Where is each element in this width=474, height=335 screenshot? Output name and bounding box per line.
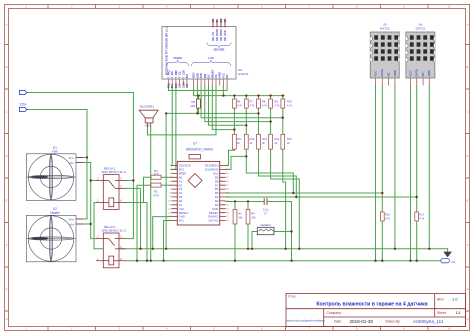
svg-text:R3: R3 — [238, 212, 242, 216]
svg-text:ILI9341: ILI9341 — [238, 72, 249, 76]
svg-text:SD_MISO: SD_MISO — [219, 29, 223, 41]
node DHT2 data to arduino — [416, 196, 418, 198]
wire divider column 4 — [271, 96, 300, 249]
svg-text:SDI: SDI — [203, 74, 207, 79]
node col2 branch — [245, 155, 247, 157]
svg-text:ARDUINO_NANO: ARDUINO_NANO — [186, 147, 214, 151]
wire node A down to gnd rail — [165, 113, 167, 248]
wire divider column 3 — [259, 96, 297, 197]
svg-text:A: A — [6, 23, 8, 27]
svg-text:Vin+: Vin+ — [69, 156, 75, 160]
svg-text:SDCARD: SDCARD — [214, 49, 225, 52]
svg-text:G: G — [5, 287, 7, 291]
label R17 4.7k — [419, 213, 425, 221]
wire display RESET to divider1 — [212, 86, 234, 130]
svg-text:VCC: VCC — [221, 73, 225, 79]
wire arduino left GND to gnd rail — [153, 217, 172, 249]
node 5v rail x147 — [146, 260, 148, 262]
node gnd rail DHT2 — [428, 248, 430, 250]
resistor R14 — [269, 134, 273, 149]
wire DHT1 DATA down — [381, 86, 383, 261]
R3 R4 top stubs — [235, 202, 248, 210]
resistor R12 — [244, 134, 248, 149]
wire divider column 5 — [283, 96, 286, 249]
label RELAY2 — [102, 225, 128, 233]
svg-text:B: B — [467, 65, 469, 69]
svg-text:4.7k: 4.7k — [250, 104, 256, 108]
wire divider column 2 — [246, 96, 293, 193]
DHT U5 pin names — [373, 69, 396, 76]
svg-text:4.7k: 4.7k — [419, 217, 425, 221]
svg-text:NC: NC — [386, 72, 390, 76]
op-amp U7 arduino nano body — [177, 161, 219, 225]
svg-text:RESET: RESET — [210, 69, 214, 78]
svg-text:T_CS: T_CS — [178, 71, 182, 78]
svg-text:4.7k: 4.7k — [287, 104, 293, 108]
arduino usb connector — [189, 154, 200, 159]
node 5v rail gndpin — [162, 260, 164, 262]
wire DHT1 VCC down — [375, 86, 377, 261]
svg-text:R8: R8 — [262, 100, 266, 104]
svg-text:R10: R10 — [287, 100, 292, 104]
wire relay1 coil left to gnd rail — [94, 203, 96, 249]
wire display node line y113.4 to divider3 — [166, 112, 258, 114]
node gnd rail x152 — [152, 248, 154, 250]
DHT sensor U5 body — [370, 32, 399, 78]
heater X2 — [26, 215, 76, 261]
wire arduino left VIN down — [164, 221, 172, 261]
node col3 on data rail — [292, 192, 294, 194]
svg-text:NC: NC — [421, 72, 425, 76]
DHT U5 pins — [376, 78, 395, 86]
resistor R16 pull-up DHT1 — [380, 212, 384, 221]
display touch net labels below — [167, 82, 190, 88]
node 5v rail R3 — [234, 260, 236, 262]
svg-text:CK: CK — [223, 18, 227, 22]
svg-text:E: E — [6, 199, 8, 203]
svg-text:U7: U7 — [193, 142, 197, 146]
svg-text:220v: 220v — [20, 102, 27, 106]
svg-text:VCC: VCC — [373, 71, 377, 77]
display lcd pin names inside — [192, 69, 230, 78]
svg-text:DHT22: DHT22 — [380, 26, 390, 30]
wire buzzer pin1 to display pin — [148, 86, 217, 135]
node 5v rail cap line — [290, 260, 292, 262]
svg-text:R14: R14 — [275, 137, 280, 141]
svg-text:TOUCH: TOUCH — [173, 57, 182, 60]
svg-text:C: C — [467, 110, 469, 114]
label R13 2k — [262, 137, 267, 145]
wire fan E1 Vin+ stub — [83, 157, 87, 159]
display sdcard brace — [207, 43, 231, 48]
svg-text:E: E — [467, 199, 469, 203]
svg-text:4.7k: 4.7k — [275, 104, 281, 108]
svg-text:SRD-05VDC-SL-C: SRD-05VDC-SL-C — [102, 170, 128, 174]
wire relay1 pin3 branch — [126, 180, 134, 182]
label R15 2k — [287, 137, 292, 145]
svg-text:INT: INT — [185, 83, 189, 88]
svg-text:HY28A 2.8 RGB TFT 240X320 SPI: HY28A 2.8 RGB TFT 240X320 SPI v1.1 — [165, 26, 169, 75]
node col4 on data rail — [295, 196, 297, 198]
node divider2 mid — [245, 124, 247, 126]
svg-text:R4: R4 — [251, 212, 255, 216]
node divider4 mid — [269, 120, 271, 122]
display touch pins — [169, 79, 188, 86]
svg-text:AnDrEyKa_111: AnDrEyKa_111 — [413, 319, 444, 324]
arduino pin stubs right — [220, 166, 226, 221]
wire display SCK to divider5 — [201, 86, 283, 118]
svg-text:1.0: 1.0 — [452, 297, 458, 302]
label R7 4.7k — [250, 100, 256, 108]
resistor R15 — [281, 134, 285, 149]
node divider5 top — [282, 94, 284, 96]
svg-text:T_DO: T_DO — [170, 71, 174, 78]
node gnd rail DHT1 — [394, 248, 396, 250]
wire fan Vin- down to relay2 pin2 — [83, 163, 96, 239]
svg-text:H: H — [6, 317, 8, 321]
photoresistor FR1 — [257, 227, 274, 234]
wire R5 top to +5v top rail — [198, 96, 200, 99]
svg-text:Company:: Company: — [327, 311, 342, 315]
svg-text:LED: LED — [195, 73, 199, 78]
wire R4 bottom to gnd rail — [247, 224, 249, 249]
connector P2 220v neutral — [20, 107, 27, 111]
wire DHT2 DATA down — [416, 86, 418, 261]
node gnd rail nodeA — [165, 248, 167, 250]
display sdcard net labels above — [211, 18, 227, 23]
svg-text:+5V: +5V — [145, 123, 150, 127]
label R2 470 — [153, 190, 158, 198]
svg-text:Vin-: Vin- — [69, 222, 74, 226]
label U7 ARDUINO_NANO — [186, 142, 214, 152]
label E1 Fan — [52, 146, 58, 154]
wire gnd symbol stub — [447, 249, 449, 252]
node divider1 top — [233, 94, 235, 96]
resistor R8 — [257, 99, 261, 108]
wire display DC to divider2 — [209, 86, 247, 126]
svg-text:R17: R17 — [419, 213, 424, 217]
svg-text:A: A — [467, 23, 469, 27]
pin Vin+ of E1 — [76, 158, 83, 163]
label R14 2k — [275, 137, 280, 145]
svg-text:DC: DC — [207, 74, 211, 78]
wire display pin SDO to node A line — [196, 86, 198, 114]
node R3 top — [234, 200, 236, 202]
node display VCC on rail — [222, 94, 224, 96]
node 5v rail DHT2 DATA — [416, 260, 418, 262]
wire R2 left to relay2 coil — [137, 185, 151, 261]
svg-text:Vin+: Vin+ — [69, 217, 75, 221]
svg-text:SRD-05VDC-SL-C: SRD-05VDC-SL-C — [102, 229, 128, 233]
svg-text:Drawn By:: Drawn By: — [385, 320, 400, 324]
svg-text:TITLE:: TITLE: — [288, 294, 297, 298]
svg-text:R13: R13 — [262, 137, 267, 141]
wire GND rail — [94, 248, 448, 250]
svg-text:VCC: VCC — [408, 71, 412, 77]
label R4 220 — [251, 212, 256, 220]
title block — [286, 294, 466, 327]
svg-text:R9: R9 — [275, 100, 279, 104]
label R8 4.7k — [262, 100, 268, 108]
resistor R11 — [233, 134, 237, 149]
wire touch T_DO to arduino D13 — [170, 86, 173, 166]
label X2 Heater — [50, 207, 61, 215]
svg-text:H: H — [467, 317, 469, 321]
display touch brace — [167, 60, 189, 66]
node col5 on gnd rail — [298, 248, 300, 250]
svg-text:2019-01-30: 2019-01-30 — [350, 319, 374, 324]
svg-text:AHGEKA: AHGEKA — [260, 223, 271, 227]
label R10 4.7k — [287, 100, 293, 108]
svg-text:SD_SCK: SD_SCK — [223, 30, 227, 41]
svg-text:4.7k: 4.7k — [262, 104, 268, 108]
relay RELAY2 — [96, 233, 126, 268]
wire divider column 1 — [226, 96, 235, 166]
resistor R3 — [233, 210, 237, 225]
svg-text:GND: GND — [393, 70, 397, 76]
wire display VCC pin to top rail — [222, 86, 224, 96]
svg-text:220: 220 — [251, 216, 256, 220]
wire branch to relay1 pin2 — [91, 180, 96, 182]
node display SDO join — [196, 112, 198, 114]
node 5v rail buzzer — [150, 260, 152, 262]
wire DHT2 VCC down — [410, 86, 412, 261]
svg-text:10k: 10k — [238, 216, 243, 220]
svg-text:R11: R11 — [237, 137, 242, 141]
svg-text:T_CLK: T_CLK — [181, 70, 185, 79]
node relay1 pin2 junction — [90, 179, 92, 181]
svg-text:Heater: Heater — [50, 211, 61, 215]
svg-text:T_IRQ: T_IRQ — [167, 70, 171, 78]
node R4 top — [247, 200, 249, 202]
node DHT1 data to arduino — [381, 192, 383, 194]
label R11 2k — [237, 137, 242, 145]
resistor R6 — [233, 99, 237, 108]
svg-text:Vin-: Vin- — [69, 161, 74, 165]
wire DHT1 data rail — [226, 192, 383, 194]
svg-text:SD_MOSI: SD_MOSI — [215, 29, 219, 41]
node divider1 mid — [233, 128, 235, 130]
resistor R2 — [151, 183, 161, 187]
svg-text:C7: C7 — [264, 212, 268, 216]
svg-text:Sheet:: Sheet: — [437, 311, 447, 315]
svg-text:REV:: REV: — [437, 297, 445, 301]
wire R3 bottom to +5v rail — [234, 224, 236, 261]
node 5v rail DHT1 VCC — [374, 260, 376, 262]
svg-text:B: B — [6, 65, 8, 69]
wire R2 right to arduino — [161, 184, 171, 186]
node 5v rail R2 — [136, 260, 138, 262]
DHT sensor U6 body — [406, 32, 435, 78]
wire divider2 branch to arduino D11 — [226, 156, 247, 169]
label R5 220 — [190, 100, 195, 108]
wire arduino D3 row to R3 R4 C7 — [226, 201, 264, 203]
svg-text:R15: R15 — [287, 137, 292, 141]
node photoresistor right — [290, 230, 292, 232]
svg-text:CS: CS — [214, 74, 218, 78]
resistor R4 — [246, 210, 250, 225]
wire display SDI to divider4 — [205, 86, 271, 122]
node fan vin+ junction — [86, 156, 88, 158]
resistor R13 — [257, 134, 261, 149]
wire +5v rail — [126, 260, 441, 262]
label U5 DHT22 — [380, 22, 390, 30]
svg-text:470: 470 — [153, 193, 158, 197]
svg-text:D: D — [467, 154, 469, 158]
svg-text:470: 470 — [153, 172, 158, 176]
node gnd rail x143 — [139, 248, 141, 250]
svg-text:D1/TX1: D1/TX1 — [209, 219, 219, 223]
svg-text:SD_CS: SD_CS — [211, 32, 215, 41]
arduino left pin names — [179, 164, 191, 223]
arduino pin stubs left — [171, 166, 177, 221]
svg-text:DHT22: DHT22 — [416, 26, 426, 30]
node gnd rail R4 — [247, 248, 249, 250]
node divider5 mid — [282, 117, 284, 119]
svg-text:R12: R12 — [250, 137, 255, 141]
svg-text:G: G — [466, 287, 468, 291]
svg-text:SDO: SDO — [192, 72, 196, 78]
label R3 10k — [238, 212, 243, 220]
svg-text:DATA: DATA — [415, 69, 419, 76]
power tag +5v — [441, 259, 450, 263]
node col5 on gnd rail — [284, 248, 286, 250]
node divider3 top — [257, 94, 259, 96]
label U6 DHT22 — [416, 22, 426, 30]
node relay1 pin3 junction — [132, 179, 134, 181]
svg-text:220: 220 — [190, 104, 195, 108]
wire relay1 pin5 down — [126, 188, 141, 248]
wire top rail +5v of dividers — [194, 86, 285, 96]
svg-text:SCK: SCK — [199, 73, 203, 79]
resistor R17 pull-up DHT2 — [415, 212, 419, 221]
resistor R7 — [244, 99, 248, 108]
svg-text:D: D — [6, 154, 8, 158]
pin Vin+ of X2 — [76, 219, 83, 224]
svg-text:GND: GND — [218, 72, 222, 78]
svg-text:Контроль влажности в гараже на: Контроль влажности в гараже на 4 датчика — [316, 301, 427, 307]
node heater vin- junction — [90, 223, 92, 225]
display sdcard pin names inside — [211, 29, 227, 41]
node A R5 bottom — [165, 112, 167, 114]
resistor R1 — [151, 175, 161, 179]
DHT U6 grid — [410, 35, 434, 60]
wire R1 left to relay1 coil path — [144, 177, 152, 202]
node divider2 top — [245, 94, 247, 96]
svg-text:+5v: +5v — [451, 260, 456, 264]
svg-text:DATA: DATA — [380, 69, 384, 76]
display touch pin names inside — [167, 70, 190, 79]
wire DHT2 GND down — [428, 86, 430, 249]
label R9 4.7k — [275, 100, 281, 108]
label C7 0.1u — [263, 208, 269, 216]
wire relay1 coil right down — [126, 203, 148, 261]
resistor R10 — [281, 99, 285, 108]
svg-text:Date:: Date: — [334, 320, 342, 324]
node gnd rail photores — [251, 248, 253, 250]
wire R5 bottom to node A — [198, 108, 200, 113]
label R16 4.7k — [385, 213, 391, 221]
display lcd pins — [194, 79, 228, 86]
svg-text:NC: NC — [225, 74, 229, 78]
label RELAY1 — [102, 167, 128, 175]
label U9 ILI9341 — [238, 68, 249, 76]
label R12 2k — [250, 137, 255, 145]
DHT U6 pins — [411, 78, 430, 86]
label R6 4.7k — [237, 100, 243, 108]
svg-text:VIN: VIN — [179, 219, 184, 223]
wire DHT1 GND down — [394, 86, 396, 249]
svg-text:GND: GND — [427, 70, 431, 76]
pin numbers RELAY1 — [97, 177, 122, 203]
node 5v rail DHT2 VCC — [409, 260, 411, 262]
wire photoresistor left down — [252, 232, 257, 249]
wire 220v line2 to fan and heater Vin+ — [27, 110, 87, 220]
svg-text:T_DIN: T_DIN — [174, 70, 178, 78]
display lcd brace — [192, 60, 231, 66]
node divider3 mid — [257, 112, 259, 114]
wire C7 to right vertical — [268, 202, 292, 261]
wire photoresistor right to C7 vertical — [274, 231, 292, 233]
wire buzzer pin2 down to +5v rail — [150, 127, 152, 261]
buzzer BUZZER1 — [139, 110, 158, 127]
svg-text:1/1: 1/1 — [456, 311, 461, 315]
resistor R9 — [269, 99, 273, 108]
node 5v rail DHT1 DATA — [381, 260, 383, 262]
node divider4 top — [269, 94, 271, 96]
ground — [444, 252, 452, 257]
capacitor C7 — [264, 198, 267, 205]
label R1 470 — [153, 169, 158, 176]
wire DHT2 data rail — [226, 196, 417, 198]
DHT U5 grid — [374, 35, 398, 60]
resistor R5 — [197, 99, 201, 108]
svg-text:C: C — [6, 110, 8, 114]
fan E1 — [26, 154, 76, 201]
svg-text:INT: INT — [185, 74, 189, 79]
connector P1 220v line — [20, 90, 27, 94]
svg-text:4.7k: 4.7k — [237, 104, 243, 108]
svg-text:4.7k: 4.7k — [385, 217, 391, 221]
svg-text:R16: R16 — [385, 213, 390, 217]
wire touch T_DIN to arduino 3V3 — [171, 86, 176, 170]
pin numbers RELAY2 — [97, 235, 122, 261]
DHT U6 pin names — [408, 69, 431, 76]
svg-text:LCD: LCD — [208, 57, 213, 60]
svg-text:arduino-diy.com/garazh-ventila: arduino-diy.com/garazh-ventilation — [287, 319, 326, 322]
arduino right pin names — [205, 164, 219, 223]
svg-text:BUZZER1: BUZZER1 — [140, 105, 154, 109]
arduino pin numbers — [168, 165, 229, 222]
wire touch pin to display pin10 — [169, 86, 228, 91]
display module U9 body — [162, 27, 236, 80]
display sdcard pins up — [213, 19, 225, 28]
wire heater Vin- stub — [83, 223, 91, 225]
svg-text:Fan: Fan — [52, 150, 58, 154]
wire 220v line1 to relays — [27, 93, 134, 239]
arduino diamond mark — [188, 174, 202, 188]
node R5 top on rail — [197, 94, 199, 96]
svg-text:R6: R6 — [237, 100, 241, 104]
relay RELAY1 — [96, 175, 126, 210]
wire R1 right to arduino A0 — [161, 176, 171, 178]
svg-text:R7: R7 — [250, 100, 254, 104]
